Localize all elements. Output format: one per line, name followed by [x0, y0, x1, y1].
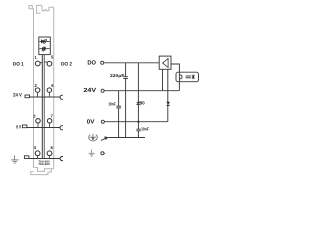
svg-text:7: 7 [50, 114, 53, 119]
terminal circle earth left [35, 151, 40, 156]
stub earth left [37, 156, 39, 158]
earth symbol left [11, 155, 19, 163]
node earth terminal [101, 152, 104, 155]
driver U1 [159, 56, 171, 69]
LED indicator block [176, 72, 199, 82]
stub earth terminal [104, 152, 105, 154]
terminal circle 0V right [47, 119, 52, 124]
svg-text:0 V: 0 V [16, 125, 21, 131]
svg-text:90: 90 [140, 100, 145, 105]
rail contact symbol [89, 134, 98, 141]
stub 24V left [37, 92, 39, 96]
status LED box [39, 37, 51, 55]
svg-text:220pF: 220pF [110, 73, 125, 78]
terminal box 0V [22, 125, 27, 128]
wire 0V [105, 121, 168, 123]
wire varistor branch [137, 63, 139, 129]
svg-text:24V: 24V [84, 87, 97, 94]
capacitor C1 220pF [123, 63, 128, 138]
stub 24V right [48, 92, 50, 96]
wire 24V [104, 90, 179, 92]
terminal circle 24V right [47, 88, 52, 93]
wire 0V row [27, 127, 60, 129]
svg-text:0V: 0V [87, 118, 95, 125]
wire driver to LED block [171, 64, 179, 72]
earth arrow [101, 138, 106, 141]
svg-text:10nF: 10nF [108, 102, 116, 107]
earth bus wire [109, 137, 145, 139]
stub 0V right [49, 123, 51, 127]
LED bars [186, 75, 191, 77]
svg-text:750-502: 750-502 [38, 163, 50, 166]
module housing bottom profile [31, 167, 54, 174]
svg-text:DO: DO [87, 60, 96, 67]
module housing top profile [29, 5, 54, 13]
wire earth row [29, 158, 60, 160]
terminal circle DO1 [35, 61, 40, 66]
svg-text:3: 3 [33, 114, 36, 119]
wire driver supply [162, 69, 164, 90]
stub earth right [49, 156, 51, 158]
capacitor C3 10nF [136, 129, 140, 137]
svg-text:10nF: 10nF [141, 127, 149, 132]
LED DO1 [39, 39, 49, 44]
earth symbol schematic [89, 150, 95, 157]
LED DO2 [39, 47, 49, 52]
terminal circle 0V left [36, 119, 41, 124]
wire through LED block [178, 72, 180, 91]
svg-text:1: 1 [35, 55, 38, 60]
wire driver to 0V [167, 69, 169, 121]
internal bus rail left [41, 55, 43, 159]
wire DO2 to rail [44, 61, 47, 63]
wire DO [104, 62, 159, 64]
node DO terminal [101, 61, 104, 64]
capacitor C2 10nF [116, 91, 121, 138]
svg-text:4: 4 [34, 145, 37, 150]
node 24V terminal [101, 89, 104, 92]
internal bus rail right [43, 55, 45, 159]
LED symbol left [180, 75, 182, 79]
terminal box 24V [25, 95, 30, 98]
module right edge [53, 7, 55, 168]
svg-text:DO 2: DO 2 [61, 61, 72, 67]
module left edge [33, 9, 35, 168]
node 0V terminal [101, 120, 104, 123]
wire 24V row [30, 96, 60, 98]
terminal box earth [24, 156, 29, 159]
terminal circle DO2 [47, 61, 52, 66]
stub 0V left [37, 123, 39, 127]
svg-text:DO 1: DO 1 [13, 61, 24, 67]
svg-text:24 V: 24 V [13, 93, 22, 99]
terminal circle earth right [47, 151, 52, 156]
terminal circle 24V left [35, 88, 40, 93]
power jumper contact 0V [60, 126, 63, 130]
diode D1 [166, 102, 170, 105]
varistor RV1 [137, 102, 141, 105]
junction 0V / C3 [137, 121, 139, 123]
LED symbol right [192, 75, 195, 80]
power jumper contact 24V [60, 95, 63, 99]
power jumper contact earth [60, 157, 63, 161]
svg-text:8: 8 [50, 145, 53, 150]
wire DO1 to rail [40, 61, 42, 63]
